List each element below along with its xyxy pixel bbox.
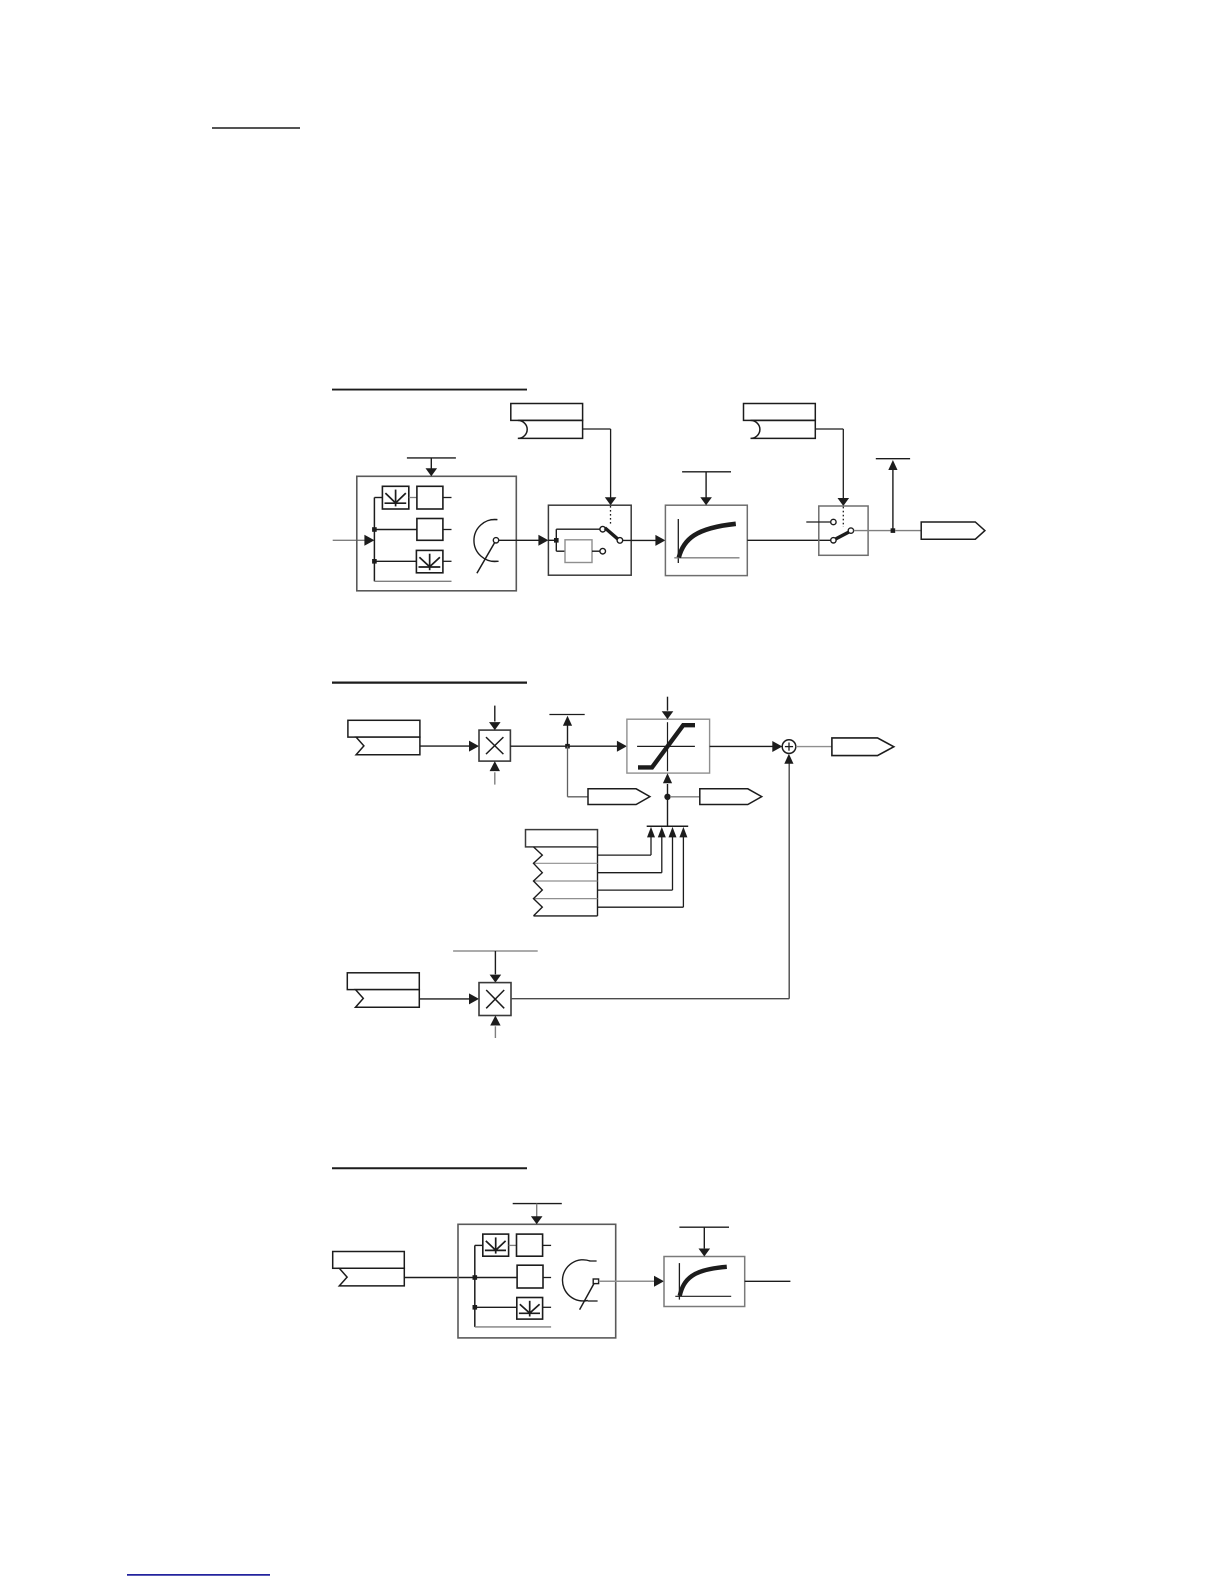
wire bus to limiter L5	[475, 1306, 517, 1308]
footer rule (blue)	[127, 1574, 270, 1576]
arrow wire into M2 top	[494, 951, 496, 974]
banner X1	[588, 789, 650, 805]
junction node after M1	[565, 744, 570, 749]
inverter box in S1	[565, 540, 592, 563]
up arrow T-bar at output	[876, 459, 910, 531]
L3 axes	[637, 722, 695, 771]
input connector K3	[333, 1252, 405, 1269]
junction node row 2 B2	[473, 1275, 478, 1280]
arrow into filter F3	[655, 535, 665, 546]
junction node in S1	[554, 538, 559, 543]
contact b2	[831, 538, 836, 543]
F6 exponential curve	[680, 1267, 727, 1296]
multiplier M2	[479, 983, 511, 1016]
arrow into switch S2 top	[838, 498, 850, 506]
junction node row 3 B2	[473, 1305, 478, 1310]
wire P2 to switch S2	[815, 429, 843, 499]
wire bus to limiter L4	[475, 1244, 483, 1246]
parameter T-bar above F6	[679, 1227, 729, 1248]
rotary selector switch SW2	[562, 1260, 598, 1310]
wire to upper contact	[556, 529, 600, 540]
output banner diagram 2	[832, 738, 894, 756]
wire K2 to multiplier M2	[420, 998, 469, 1000]
wire S1 to filter F3	[623, 539, 657, 541]
wire to inverter box	[556, 540, 565, 551]
arrow into selector B1	[364, 535, 374, 546]
bypass wire row 4	[374, 580, 451, 582]
input wire diagram 1	[333, 539, 366, 541]
input connector K1	[348, 720, 420, 737]
arrow into M2	[469, 993, 479, 1004]
rotary selector switch SW1	[474, 519, 499, 573]
output banner diagram 1	[921, 522, 985, 539]
parameter T-bar above B1	[407, 458, 456, 469]
arrow into limiter L3	[617, 741, 627, 752]
switch block S2 box	[819, 506, 868, 555]
F3 exponential curve	[679, 524, 736, 558]
stub F5 output	[543, 1277, 551, 1279]
arrow into filter F6	[654, 1276, 664, 1287]
wire bus to box F2	[374, 529, 417, 531]
arrow into B2 top	[531, 1216, 543, 1224]
contact b3 (common)	[848, 528, 853, 533]
wire M2 to summer	[511, 764, 789, 999]
box F5 (row 2)	[517, 1265, 543, 1288]
wire SW1 to switch S1	[499, 539, 539, 541]
summer A1	[782, 740, 796, 754]
T-bar above M2	[453, 950, 538, 952]
section 1 title underline	[332, 389, 527, 391]
junction node row 2	[372, 527, 377, 532]
input connector K2	[347, 973, 419, 990]
arrow into switch S1 top	[605, 497, 617, 505]
stub arrow into M1 bottom	[494, 772, 496, 784]
bypass wire row 4 B2	[475, 1326, 551, 1328]
wire L1 to box F1	[409, 497, 417, 499]
select arrow 4	[598, 827, 688, 907]
select arrow 1	[598, 827, 656, 855]
box F1 (row 1)	[417, 486, 443, 509]
multiplier M1	[479, 730, 510, 761]
banner X2	[700, 789, 762, 805]
arrow up to T-bar	[888, 460, 897, 470]
box F4 (row 1)	[517, 1234, 543, 1256]
wire S1 entry	[548, 539, 556, 541]
contact a3 (common)	[617, 538, 623, 544]
stub F2 output	[443, 529, 452, 531]
stub F1 output	[443, 497, 452, 499]
F3 axes	[674, 519, 739, 563]
contact b1	[831, 519, 836, 524]
wire L3 bottom to junction	[667, 784, 669, 797]
wire L4 to box F4	[509, 1244, 517, 1246]
section 2 title underline	[332, 681, 527, 683]
output wire diagram 3	[745, 1280, 791, 1282]
wire bus to box F5	[475, 1277, 517, 1279]
stub L5 output	[543, 1306, 552, 1308]
wire junction to banner X2	[670, 796, 700, 798]
stub arrow into M2 bottom	[494, 1026, 496, 1038]
limiter L2	[416, 550, 443, 572]
wire F3 to switch S2	[747, 539, 830, 541]
wire inverter to contact a2	[592, 550, 600, 552]
box F2 (row 2)	[417, 519, 443, 541]
switch lever S1	[605, 528, 618, 539]
wire L3 to summer	[710, 745, 773, 747]
switch block S1 box	[548, 505, 631, 575]
selector block B2 outer box	[458, 1224, 616, 1338]
wire S2 to output	[854, 530, 891, 532]
arrow into summer	[772, 741, 782, 752]
arrow into M1	[469, 741, 479, 752]
wire M1 to limiter L3	[510, 745, 617, 747]
parameter T-bar above B2	[513, 1204, 562, 1217]
contact a2	[600, 548, 606, 554]
arrow into switch S1	[538, 535, 548, 546]
junction node below L3	[665, 794, 670, 799]
arrow into F3 top	[700, 497, 712, 505]
stub arrow into L3 top	[667, 697, 669, 711]
wire K1 to multiplier M1	[420, 745, 469, 747]
limiter L4	[483, 1234, 509, 1256]
junction node row 3	[372, 559, 377, 564]
filter block F3 (PT1) box	[665, 505, 747, 575]
up arrow T-bar after M1	[549, 715, 584, 747]
wire K3 to selector B2	[404, 1277, 475, 1279]
arrow up into summer	[784, 754, 793, 764]
wire bus to limiter L2	[374, 560, 416, 562]
junction node output	[891, 528, 896, 533]
arrow into B1 top	[426, 468, 438, 476]
input bus in B1	[373, 498, 375, 582]
wire P1 to switch S1	[583, 429, 611, 498]
arrow into L3 bottom	[663, 773, 672, 783]
stub arrow into M1 top	[494, 706, 496, 722]
dotted control line in S2	[842, 507, 844, 527]
branch wire down to banner X1	[568, 746, 589, 797]
filter block F6 (PT1) box	[664, 1257, 745, 1307]
wire summer to output banner	[796, 746, 832, 748]
selection bar	[647, 825, 689, 827]
wire junction down to select bar	[667, 797, 669, 827]
wire to output banner	[895, 530, 921, 532]
selector block B1 outer box	[357, 476, 517, 591]
stub upper contact S2	[806, 521, 830, 523]
limiter L5	[517, 1298, 543, 1320]
stub L2 output	[443, 560, 452, 562]
parameter connector P1 (source select)	[511, 404, 583, 421]
L3 limit curve	[638, 725, 695, 767]
parameter stack header	[526, 830, 598, 847]
limiter L1	[382, 486, 408, 509]
stub F4 output	[543, 1244, 552, 1246]
parameter connector P2 (switch control)	[744, 404, 816, 421]
wire SW2 to filter F6	[599, 1280, 656, 1282]
section 3 title underline	[332, 1167, 527, 1169]
select arrow 3	[598, 827, 677, 890]
parameter stack rows	[534, 847, 598, 916]
select arrow 2	[598, 827, 666, 873]
limiter block L3 box	[627, 719, 710, 773]
input bus in B2	[474, 1245, 476, 1327]
dotted control line in S1	[610, 506, 612, 526]
parameter T-bar above F3	[682, 472, 731, 498]
switch lever S2	[836, 532, 849, 539]
F6 axes	[675, 1263, 731, 1300]
header rule	[212, 127, 300, 129]
wire bus to limiter L1	[374, 497, 382, 499]
contact a1	[600, 526, 606, 532]
arrow into F6 top	[699, 1249, 711, 1257]
